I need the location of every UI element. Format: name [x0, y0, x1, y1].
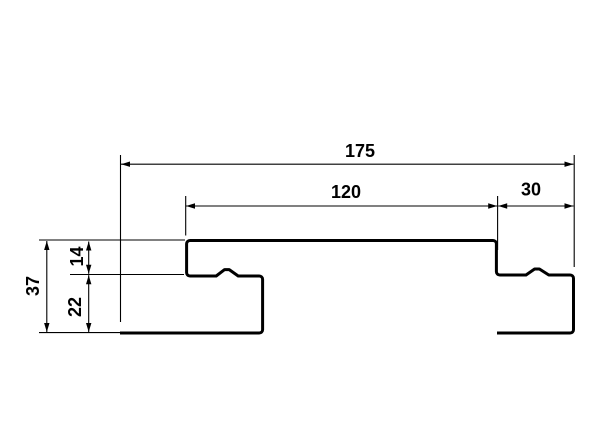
svg-text:120: 120 — [331, 182, 361, 202]
extension line for 120/30 middle (x=497.6) — [497, 196, 499, 250]
extension line right vertical (x=574) — [573, 155, 575, 267]
dimension 22 — [65, 275, 92, 332]
dimension 37 — [23, 241, 50, 332]
extension line left vertical (x=120) — [120, 155, 122, 322]
profile outline (sheet-metal section) — [120, 241, 574, 334]
dimension 120 — [186, 182, 497, 209]
dimension 14 — [67, 242, 92, 274]
extension line for 120 left (x=186) — [185, 196, 187, 236]
svg-text:22: 22 — [65, 297, 85, 317]
dimension 175 — [121, 141, 574, 167]
svg-text:37: 37 — [23, 276, 43, 296]
dimension 30 — [498, 180, 573, 209]
svg-text:30: 30 — [521, 180, 541, 200]
svg-text:175: 175 — [345, 141, 375, 161]
extension line top horizontal (y=240) — [39, 239, 185, 241]
extension line middle horizontal (y=274.5) — [70, 274, 184, 276]
extension line bottom horizontal (y=332.6) — [39, 332, 121, 334]
svg-text:14: 14 — [67, 246, 87, 266]
